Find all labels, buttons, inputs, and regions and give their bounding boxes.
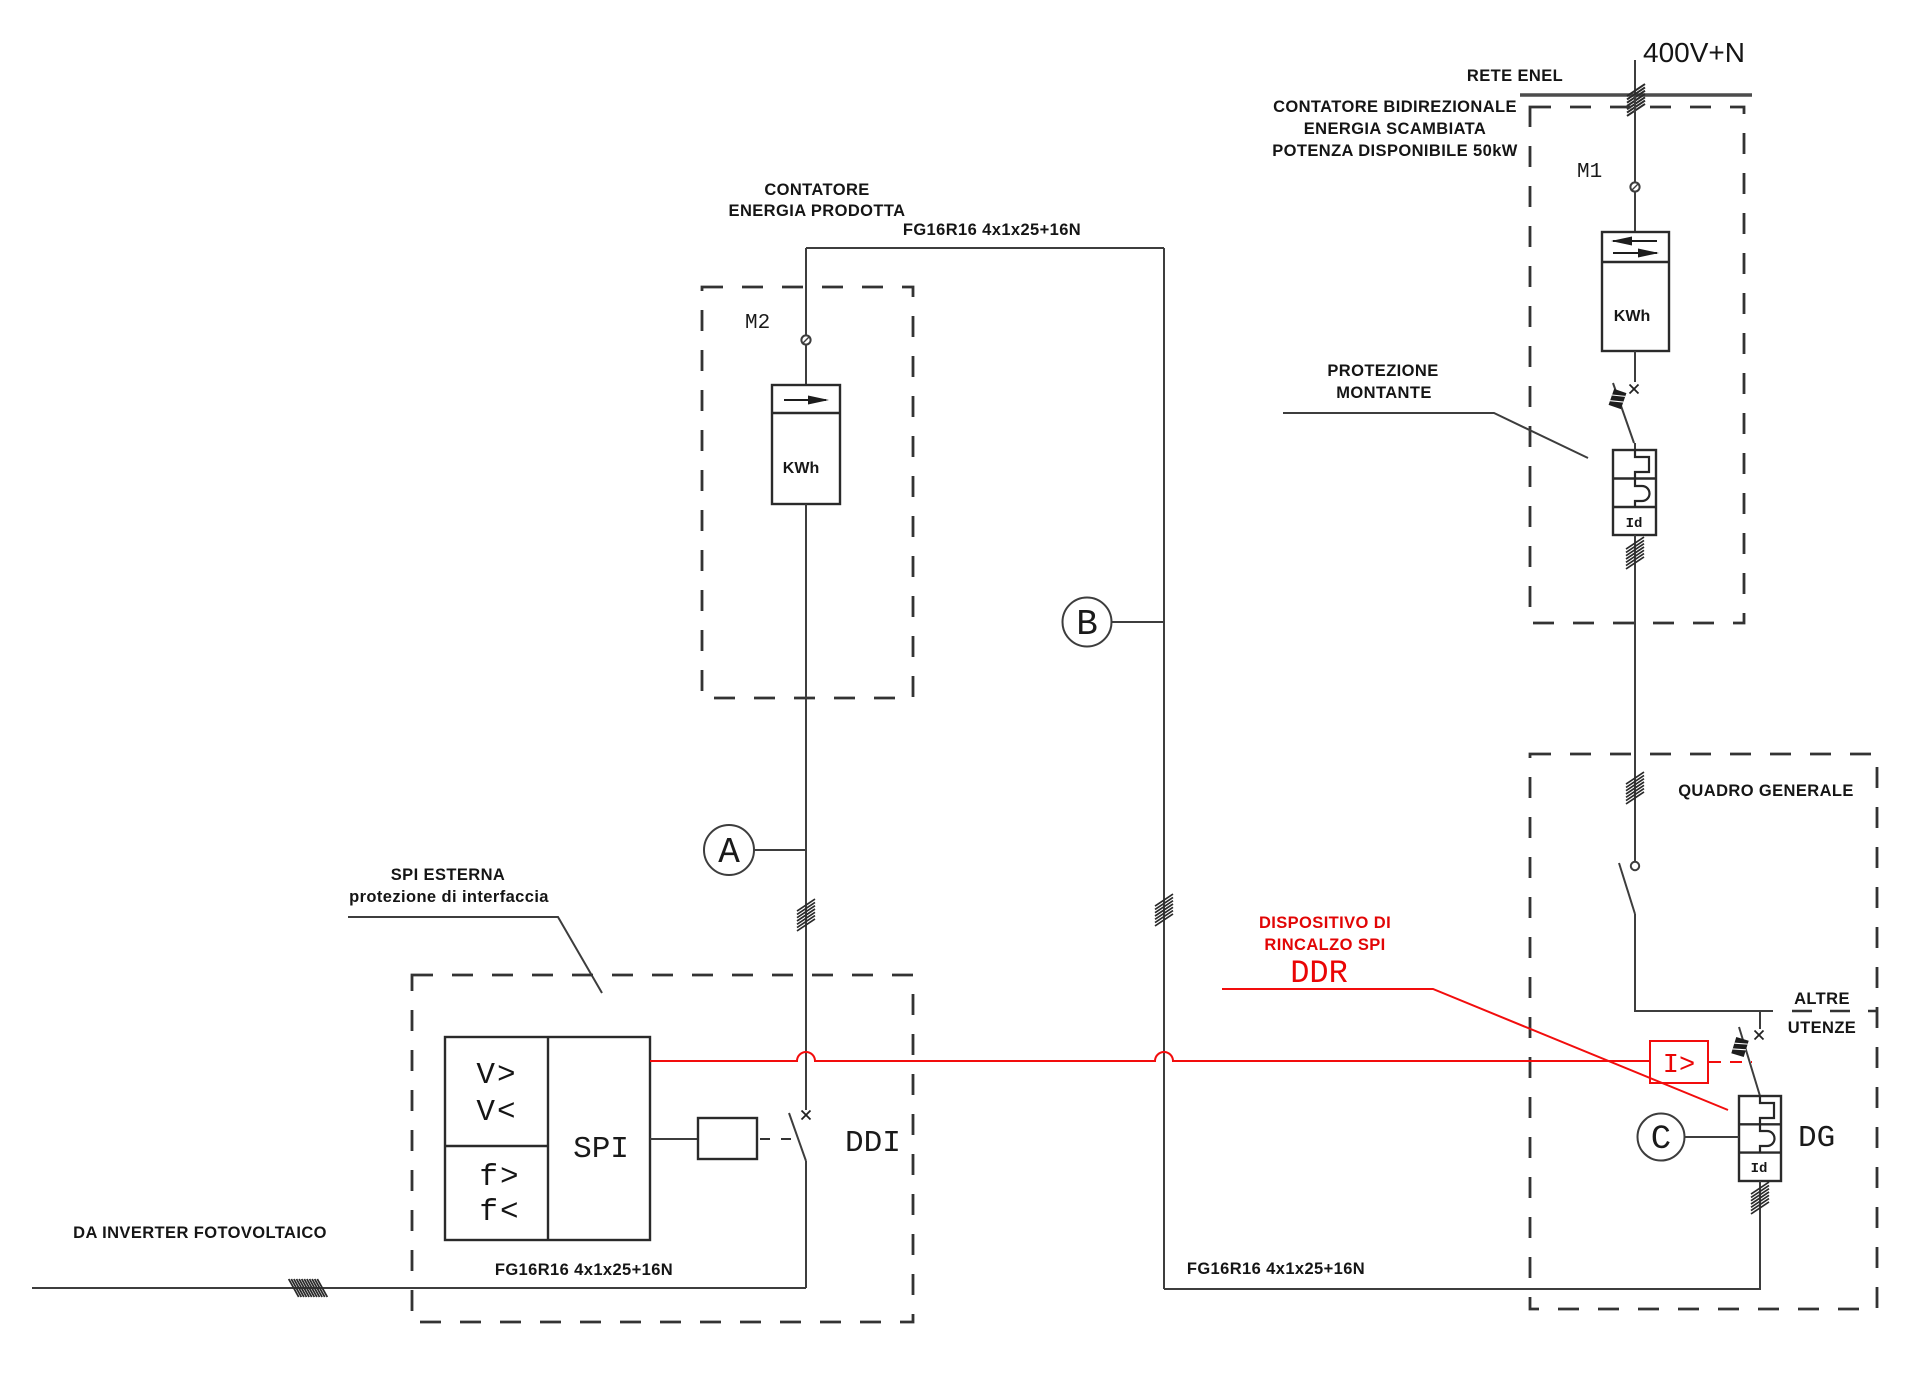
hatch: conductor marks below M2 <box>797 899 815 931</box>
svg-text:RINCALZO SPI: RINCALZO SPI <box>1264 936 1385 954</box>
svg-text:V<: V< <box>476 1095 517 1130</box>
dashed mechanical link coil to DDI blade <box>760 1138 795 1140</box>
leader line to riser protection <box>1283 413 1588 458</box>
wire: SPI to trip coil <box>650 1138 698 1140</box>
node: M2 meter terminal circle <box>801 335 810 344</box>
wire: M2 meter down to DDI <box>805 504 807 1110</box>
bus RETE ENEL <box>1520 93 1752 96</box>
node A circle <box>704 825 754 875</box>
svg-text:MONTANTE: MONTANTE <box>1336 384 1431 402</box>
wire: switch to breaker <box>1634 443 1636 452</box>
arrow left in M1 <box>1613 240 1657 242</box>
hatch blob on M1 switch blade <box>1609 389 1627 409</box>
svg-text:V>: V> <box>476 1058 517 1093</box>
svg-text:PROTEZIONE: PROTEZIONE <box>1327 362 1438 380</box>
contact x mark of DDI <box>802 1111 811 1120</box>
relay SPI block <box>445 1037 650 1240</box>
hatch blob on DG blade <box>1731 1037 1748 1057</box>
meter M1 (KWh bidirectional) <box>1602 232 1669 351</box>
wire: DG down and left to B riser <box>1164 1181 1760 1289</box>
svg-text:DDI: DDI <box>845 1126 901 1161</box>
svg-text:Id: Id <box>1751 1161 1768 1177</box>
hatch: conductor marks in panel riser <box>1626 772 1644 804</box>
svg-text:DISPOSITIVO DI: DISPOSITIVO DI <box>1259 914 1391 932</box>
svg-text:ENERGIA SCAMBIATA: ENERGIA SCAMBIATA <box>1304 120 1487 138</box>
hatch: conductor marks on B riser <box>1155 894 1173 926</box>
arrow right in M1 <box>1613 252 1657 254</box>
meter M2 (KWh production) <box>772 385 840 504</box>
wire: disconnector to distribution corner <box>1635 914 1773 1011</box>
svg-text:protezione di interfaccia: protezione di interfaccia <box>349 888 549 906</box>
node: disconnector fixed contact circle <box>1631 862 1639 870</box>
svg-text:ALTRE: ALTRE <box>1794 990 1850 1008</box>
wire: into general panel <box>1634 754 1636 861</box>
svg-text:RETE ENEL: RETE ENEL <box>1467 67 1563 85</box>
wire: terminal to M1 meter <box>1634 192 1636 232</box>
svg-text:A: A <box>718 832 740 873</box>
wire: B to riser <box>1112 621 1165 623</box>
svg-text:f<: f< <box>479 1195 520 1230</box>
red wire: SPI to I> with hops over black wires <box>650 1052 1650 1061</box>
svg-text:ENERGIA PRODOTTA: ENERGIA PRODOTTA <box>729 202 906 220</box>
dashed enclosure: M1 meter cabinet <box>1530 107 1744 623</box>
node: M1 meter terminal circle <box>1630 182 1639 191</box>
DG switch blade <box>1739 1027 1760 1096</box>
DG magnetic release hook <box>1760 1096 1774 1124</box>
wire: C to DG <box>1685 1136 1740 1138</box>
leader line to SPI enclosure <box>348 917 602 993</box>
svg-text:M2: M2 <box>745 312 770 335</box>
wire: from photovoltaic inverter <box>32 1287 806 1289</box>
svg-text:M1: M1 <box>1577 161 1602 184</box>
svg-text:f>: f> <box>479 1160 520 1195</box>
magnetic release hook <box>1635 450 1649 479</box>
wire: top run down to M2 terminal <box>805 248 807 335</box>
red dashed link I> to DG blade <box>1709 1061 1752 1063</box>
switch blade of riser protection M1 <box>1613 383 1634 443</box>
svg-text:KWh: KWh <box>783 460 819 477</box>
breaker DG (magnetothermal-differential) <box>1739 1096 1781 1181</box>
DG thermal release hook <box>1760 1124 1775 1152</box>
wire: DDI down to inverter feed <box>805 1161 807 1288</box>
breaker (magnetothermal-differential) below M1 <box>1613 450 1656 535</box>
hatch: multi-conductor marks at bus junction <box>1627 84 1645 116</box>
DDI switch blade <box>789 1113 806 1161</box>
svg-text:400V+N: 400V+N <box>1643 37 1745 68</box>
svg-text:B: B <box>1076 604 1098 645</box>
wire: bus to M1 meter terminal <box>1634 95 1636 182</box>
svg-text:DA INVERTER FOTOVOLTAICO: DA INVERTER FOTOVOLTAICO <box>73 1224 327 1242</box>
red leader DDR to DG <box>1222 989 1728 1110</box>
contact x mark of M1 riser switch <box>1630 385 1639 394</box>
svg-text:FG16R16 4x1x25+16N: FG16R16 4x1x25+16N <box>1187 1260 1365 1278</box>
wire stub to DG switch <box>1759 1011 1761 1029</box>
dashed wire to other loads <box>1792 1010 1877 1012</box>
svg-text:Id: Id <box>1626 516 1643 532</box>
thermal release hook <box>1635 479 1650 507</box>
svg-text:I>: I> <box>1663 1051 1695 1081</box>
svg-text:FG16R16 4x1x25+16N: FG16R16 4x1x25+16N <box>903 221 1081 239</box>
trip coil box <box>698 1118 757 1159</box>
dashed enclosure: SPI ESTERNA <box>412 975 913 1322</box>
wire: top run from M2 to B riser <box>806 247 1164 249</box>
hatch: conductor marks below M1 breaker <box>1626 537 1644 569</box>
hatch: conductor marks on inverter feed <box>289 1279 328 1297</box>
svg-text:POTENZA DISPONIBILE 50kW: POTENZA DISPONIBILE 50kW <box>1272 142 1518 160</box>
svg-text:KWh: KWh <box>1614 308 1650 325</box>
node B circle <box>1063 598 1112 647</box>
red relay box I> <box>1650 1041 1708 1083</box>
svg-text:DDR: DDR <box>1290 955 1348 992</box>
wire: M1 meter to switch <box>1634 351 1636 382</box>
wire B riser <box>1163 248 1165 1289</box>
disconnector blade in panel <box>1619 863 1635 914</box>
svg-text:QUADRO GENERALE: QUADRO GENERALE <box>1678 782 1854 800</box>
svg-text:C: C <box>1651 1121 1671 1159</box>
dashed enclosure: QUADRO GENERALE <box>1530 754 1877 1309</box>
svg-text:SPI: SPI <box>573 1132 629 1167</box>
svg-text:SPI ESTERNA: SPI ESTERNA <box>391 866 505 884</box>
svg-text:CONTATORE BIDIREZIONALE: CONTATORE BIDIREZIONALE <box>1273 98 1517 116</box>
svg-text:FG16R16 4x1x25+16N: FG16R16 4x1x25+16N <box>495 1261 673 1279</box>
node C circle <box>1638 1114 1685 1161</box>
svg-text:DG: DG <box>1798 1121 1835 1156</box>
svg-text:UTENZE: UTENZE <box>1788 1019 1856 1037</box>
wire: terminal to M2 meter <box>805 345 807 385</box>
dashed enclosure: M2 meter cabinet <box>702 287 913 698</box>
wire: service drop from 400V+N to bus <box>1634 60 1636 95</box>
hatch: conductor marks below DG <box>1751 1182 1769 1214</box>
wire: A to M2 riser <box>754 849 806 851</box>
arrow right in M2 <box>784 399 826 401</box>
svg-text:CONTATORE: CONTATORE <box>764 181 869 199</box>
contact x mark of DG <box>1755 1031 1764 1040</box>
wire: breaker down through cabinet wall <box>1634 535 1636 754</box>
